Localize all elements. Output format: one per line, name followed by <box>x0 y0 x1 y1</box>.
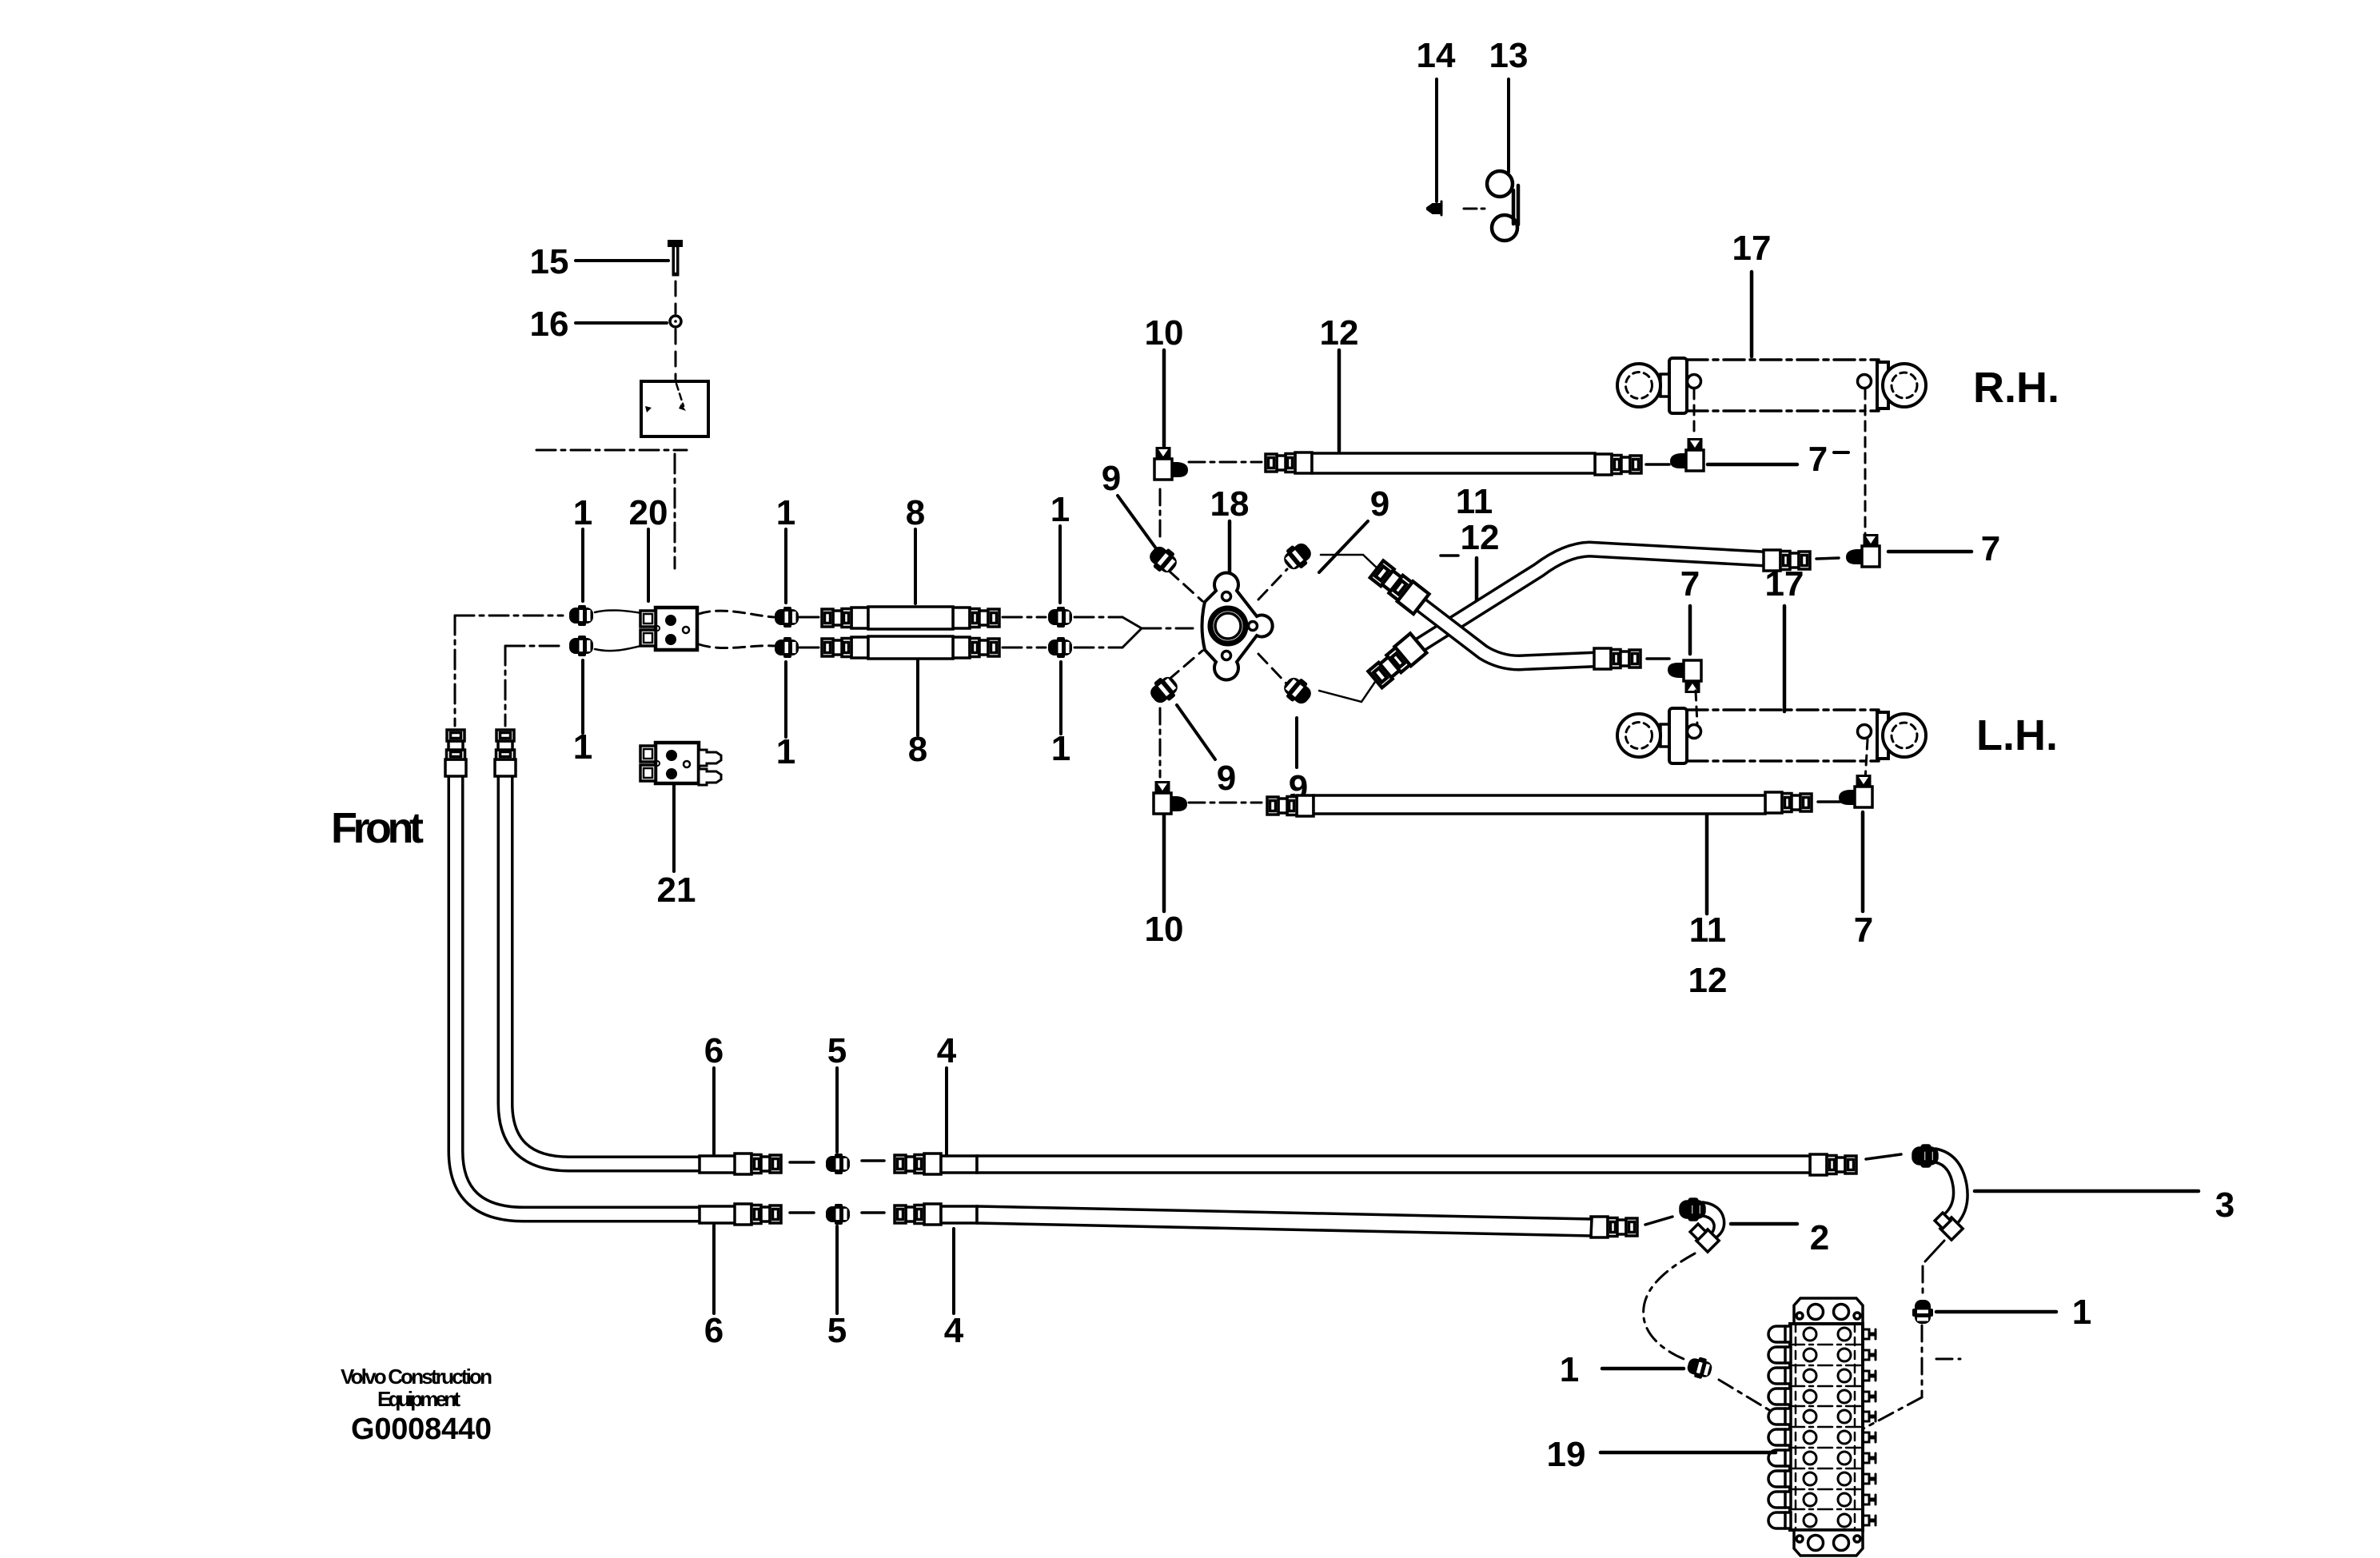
svg-text:4: 4 <box>944 1311 964 1350</box>
hose 8 upper right end <box>953 608 999 628</box>
fitting 9 lower-left <box>1146 671 1182 707</box>
svg-text:5: 5 <box>827 1031 847 1070</box>
svg-text:2: 2 <box>1810 1218 1829 1257</box>
reference box <box>641 381 708 436</box>
leader 15 <box>576 259 668 262</box>
top flange <box>1794 1298 1863 1324</box>
left nipples <box>1768 1326 1791 1528</box>
svg-text:1: 1 <box>2072 1293 2091 1332</box>
svg-text:12: 12 <box>1461 518 1500 557</box>
svg-text:17: 17 <box>1732 229 1772 268</box>
hose 4 upper right fitting <box>1810 1154 1856 1175</box>
svg-text:6: 6 <box>704 1031 724 1070</box>
label 21 <box>672 783 676 871</box>
hose 12 upper left fitting <box>1266 452 1312 473</box>
row dividers, ports, nipples, pins <box>1768 1326 1876 1528</box>
svg-text:12: 12 <box>1688 961 1728 1000</box>
fitting 1 (mid upper) <box>775 607 799 628</box>
fitting 9 upper-right <box>1279 538 1316 574</box>
svg-text:16: 16 <box>530 305 569 344</box>
svg-text:11: 11 <box>1689 910 1727 950</box>
hose 8 lower left end <box>822 637 868 658</box>
right pins <box>1863 1329 1876 1525</box>
elbow hose 2 <box>1680 1199 1724 1252</box>
svg-text:Front: Front <box>331 804 424 852</box>
hose 8 upper body <box>868 607 953 629</box>
flange 18 <box>1202 573 1273 680</box>
elbow 10 top <box>1154 447 1188 480</box>
couplings 5 with dashes <box>790 1161 884 1213</box>
bolt 14 <box>1427 204 1441 213</box>
svg-text:17: 17 <box>1765 564 1804 604</box>
hose 11/12 lower right fitting <box>1765 792 1812 813</box>
fitting 1 (left upper) <box>569 605 593 626</box>
svg-text:20: 20 <box>629 493 668 532</box>
hose 8 upper left end <box>822 608 868 628</box>
svg-text:19: 19 <box>1547 1435 1586 1474</box>
leader and label 3 <box>1975 1189 2199 1193</box>
leader 13 <box>1507 79 1510 172</box>
fitting 1 (right upper) <box>1048 607 1072 628</box>
svg-text:10: 10 <box>1145 313 1184 353</box>
hose 4 lower left fitting <box>895 1204 941 1225</box>
fitting 9 upper-left <box>1145 541 1182 577</box>
svg-text:7: 7 <box>1981 529 2000 568</box>
fitting 1 (right lower) <box>1048 637 1072 658</box>
svg-text:L.H.: L.H. <box>1976 711 2058 759</box>
dashed curves right of block 20 <box>699 611 774 648</box>
fitting 1 (mid lower) <box>775 637 799 658</box>
rising tube (to R.H.) <box>1418 549 1764 646</box>
elbow 7 at R.H. right port <box>1846 534 1880 567</box>
svg-text:11: 11 <box>1456 482 1493 521</box>
elbow 7 at R.H. left port <box>1670 438 1704 471</box>
L.H. right port dash and elbow 7 <box>1865 739 1868 780</box>
rising tube right fitting <box>1764 550 1810 571</box>
leader 16 <box>576 321 667 325</box>
fitting 1 (left of valve block) <box>1685 1355 1714 1381</box>
svg-text:7: 7 <box>1808 440 1828 479</box>
hose 4 upper left fitting <box>895 1154 941 1174</box>
svg-text:1: 1 <box>1050 490 1070 529</box>
svg-text:8: 8 <box>906 493 925 532</box>
hose 4 lower right fitting <box>1591 1217 1637 1237</box>
dash between 14 and 13 <box>1464 208 1477 210</box>
bolt 15 <box>668 241 682 246</box>
rising tube left angled fitting <box>1367 633 1427 689</box>
washer 16 <box>670 316 681 327</box>
fitting 1 (above valve block right) <box>1912 1300 1933 1324</box>
dash-dot curve from elbow 2 down to fitting 1 <box>1644 1253 1695 1359</box>
body <box>1790 1324 1863 1530</box>
thin links from fittings 9 to tubes <box>1319 555 1378 702</box>
descending tube (to L.H. side elbow) <box>1421 605 1595 663</box>
fitting 9 lower-right <box>1279 672 1316 708</box>
fitting 1 (left lower) <box>569 636 593 656</box>
thin links to block 20 <box>595 610 654 651</box>
hose 11/12 lower left fitting <box>1267 795 1314 816</box>
svg-text:7: 7 <box>1680 564 1700 604</box>
svg-text:1: 1 <box>1560 1350 1579 1389</box>
hose B (second long hose, to upper row) <box>505 772 701 1164</box>
svg-text:18: 18 <box>1210 484 1250 524</box>
svg-text:14: 14 <box>1417 36 1456 75</box>
leader 14 <box>1435 79 1438 201</box>
dash-dot rays of center node <box>1160 462 1262 803</box>
dash between hose 4 upper and elbow 3 <box>1866 1154 1901 1159</box>
svg-text:Volvo Construction: Volvo Construction <box>341 1365 492 1389</box>
svg-text:15: 15 <box>530 242 569 281</box>
dash-dot from elbow 3 down to fitting 1 right <box>1923 1241 1944 1298</box>
svg-text:6: 6 <box>704 1311 724 1350</box>
elbow 10 bottom <box>1154 781 1187 814</box>
dash-dot construction lines left <box>455 616 1122 726</box>
svg-text:5: 5 <box>827 1311 847 1350</box>
dash-dot from fitting down and into block <box>1855 1325 1960 1433</box>
hose A (left long hose, to lower row) <box>456 772 701 1214</box>
clip pin 13 <box>1487 171 1518 241</box>
svg-text:21: 21 <box>657 871 696 910</box>
svg-text:Equipment: Equipment <box>377 1387 460 1411</box>
hose 8 lower body <box>868 636 953 659</box>
hose 6 (A) right fitting <box>735 1204 781 1225</box>
svg-text:13: 13 <box>1489 36 1529 75</box>
svg-text:1: 1 <box>776 493 795 532</box>
dashed link 15-16-box <box>675 281 677 379</box>
descending tube right fitting <box>1594 648 1640 669</box>
hose 12 upper right fitting <box>1595 454 1641 475</box>
dash-dot from fitting into valve block port <box>1719 1380 1809 1434</box>
hose 6 (B) top fitting <box>495 730 516 776</box>
svg-text:4: 4 <box>937 1031 957 1070</box>
svg-text:1: 1 <box>573 493 592 532</box>
dash-dot line under box <box>536 450 687 568</box>
block 20 <box>640 608 697 650</box>
svg-text:9: 9 <box>1102 459 1121 498</box>
bottom flange <box>1794 1530 1863 1556</box>
svg-text:10: 10 <box>1145 910 1184 949</box>
svg-text:9: 9 <box>1217 759 1236 798</box>
elbow hose 3 <box>1913 1146 1967 1240</box>
descending tube left angled fitting <box>1369 560 1429 615</box>
hose 6 (B) right fitting <box>735 1154 781 1174</box>
coupling 5 lower <box>826 1204 850 1225</box>
svg-text:12: 12 <box>1320 313 1359 353</box>
hose 6 (A) top fitting <box>445 730 466 776</box>
svg-text:3: 3 <box>2215 1185 2234 1225</box>
leader and label 2 <box>1731 1222 1797 1226</box>
svg-text:R.H.: R.H. <box>1973 364 2059 412</box>
svg-text:7: 7 <box>1854 910 1873 950</box>
svg-text:9: 9 <box>1370 484 1389 524</box>
Y convergence to part 18 <box>1122 617 1193 648</box>
R.H. port dashes <box>1694 389 1865 537</box>
hose 8 lower right end <box>953 637 999 658</box>
svg-text:G0008440: G0008440 <box>351 1413 492 1446</box>
coupling 5 upper <box>826 1154 850 1174</box>
elbow 7 above L.H. left port <box>1668 660 1701 693</box>
